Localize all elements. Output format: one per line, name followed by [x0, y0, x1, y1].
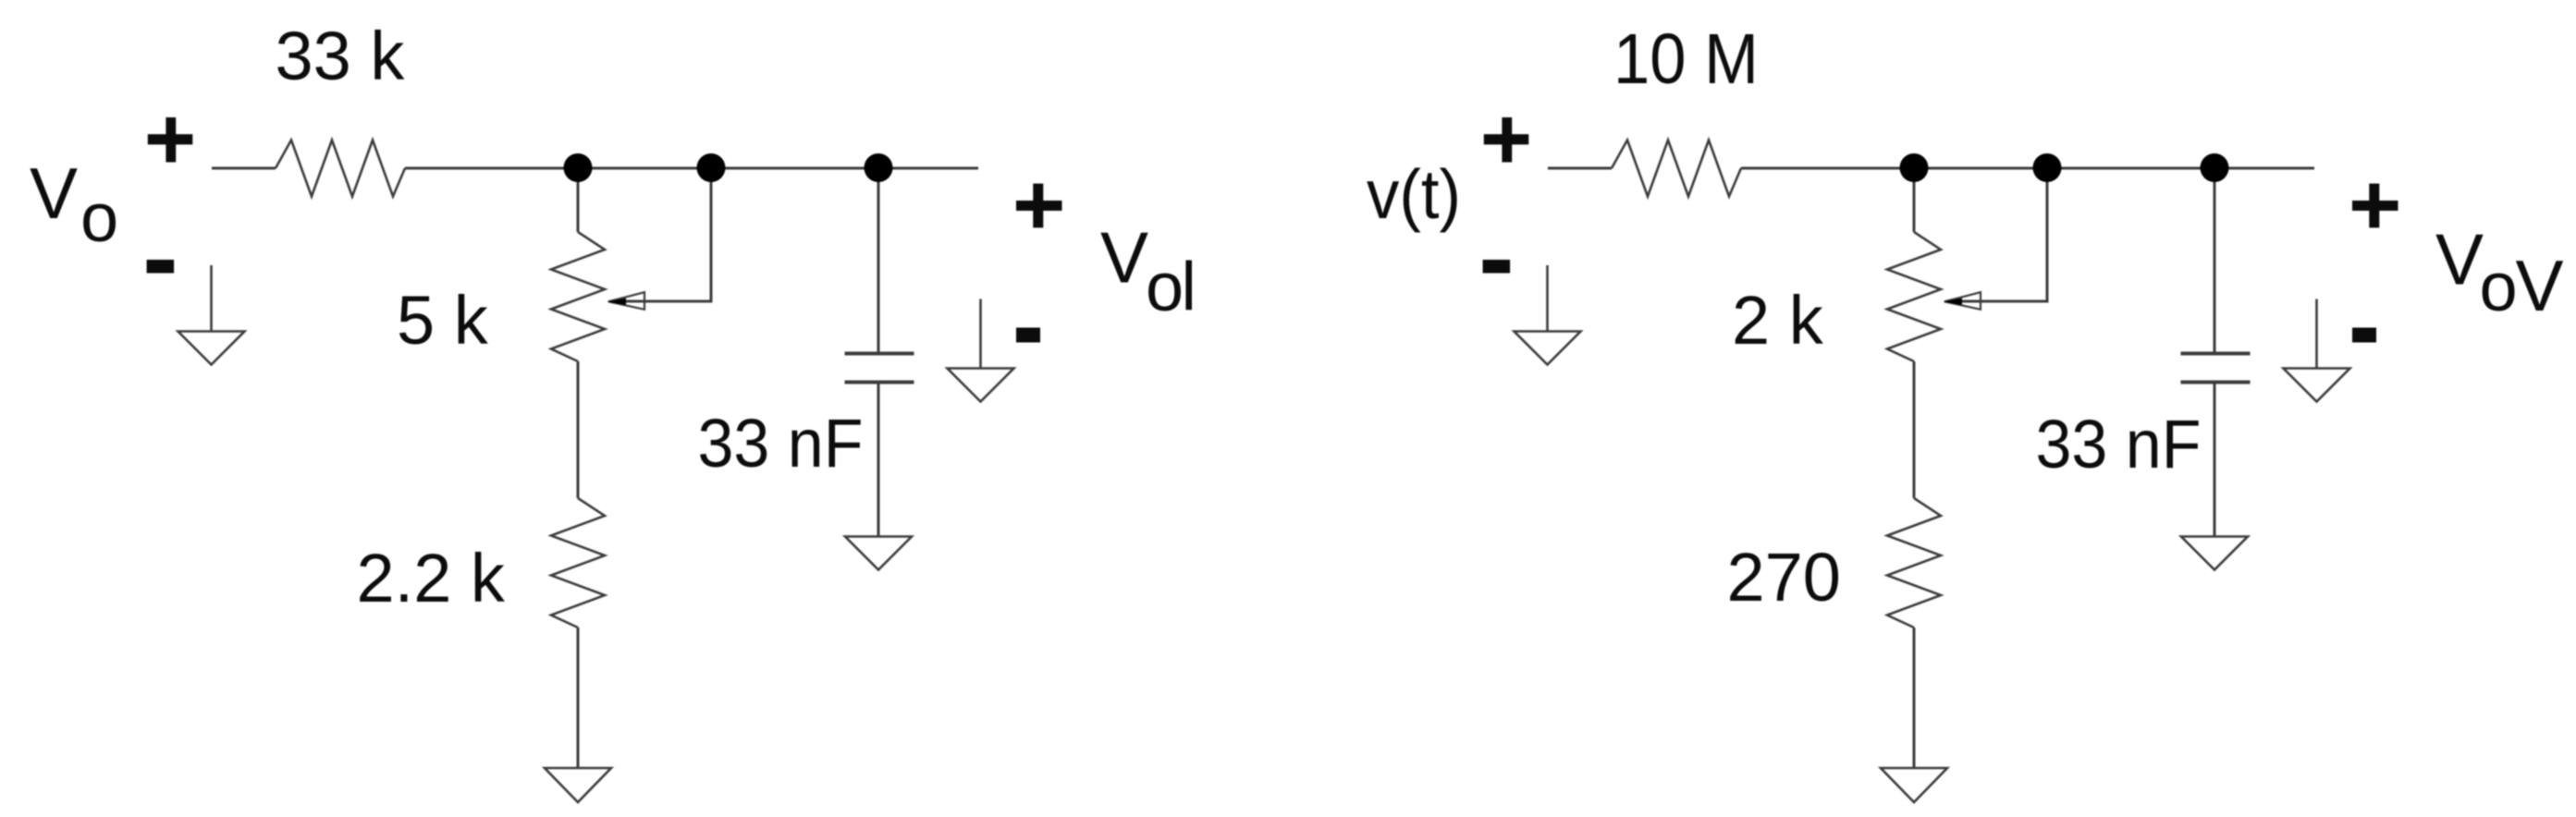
- ground under R3: [545, 768, 611, 802]
- node A junction dot: [564, 153, 593, 182]
- ground under C2: [2181, 537, 2248, 570]
- ground for output VoV: [2284, 299, 2350, 402]
- capacitor C2 33 nF plates: [2181, 354, 2251, 383]
- svg-text:10 M: 10 M: [1613, 19, 1759, 99]
- svg-text:33 nF: 33 nF: [2036, 406, 2202, 482]
- plus sign source vt: [1484, 134, 1529, 144]
- svg-text:V: V: [1100, 217, 1148, 299]
- wire R6 to ground: [1913, 628, 1916, 768]
- wire node B down to wiper: [610, 168, 711, 301]
- wire input lead right circuit: [1548, 167, 1612, 170]
- svg-text:V: V: [30, 152, 78, 234]
- wiper arrow tip fill: [607, 299, 627, 306]
- svg-text:2 k: 2 k: [1732, 282, 1824, 359]
- wire node C down to capacitor: [877, 168, 880, 352]
- plus sign source Vo: [148, 134, 193, 144]
- potentiometer R2 5 k vertical zigzag: [551, 232, 605, 361]
- node C junction dot: [865, 153, 893, 182]
- svg-text:v(t): v(t): [1367, 155, 1461, 233]
- svg-text:33 nF: 33 nF: [698, 405, 864, 482]
- wiper arrow head of R5: [1944, 292, 1981, 310]
- wire node D to potentiometer: [1913, 168, 1916, 232]
- minus sign output VoV: [2352, 328, 2376, 343]
- resistor R3 2.2 k vertical zigzag: [551, 498, 605, 628]
- resistor R4 10 M horizontal zigzag: [1612, 140, 1741, 197]
- resistor R1 33 k horizontal zigzag: [276, 140, 405, 197]
- node B junction dot: [697, 153, 726, 182]
- resistor R6 270 vertical zigzag: [1887, 498, 1941, 628]
- node F junction dot: [2201, 153, 2229, 182]
- wire node A to potentiometer: [577, 168, 580, 232]
- wiper arrow tip fill right: [1944, 299, 1963, 306]
- svg-text:V: V: [2516, 245, 2564, 326]
- capacitor C1 33 nF plates: [845, 354, 914, 383]
- minus sign source Vo: [147, 260, 175, 274]
- wire between R5 and R6: [1913, 361, 1916, 498]
- plus sign output Vol: [1016, 201, 1062, 211]
- wiper arrow head of R2: [608, 292, 644, 310]
- ground for source Vo: [178, 265, 245, 365]
- potentiometer R5 2 k vertical zigzag: [1887, 232, 1941, 361]
- plus sign output VoV: [2352, 201, 2398, 211]
- svg-text:V: V: [2435, 219, 2484, 300]
- minus sign source vt: [1483, 260, 1511, 274]
- svg-text:2.2 k: 2.2 k: [357, 540, 506, 616]
- wire R3 to ground: [577, 628, 580, 768]
- svg-text:270: 270: [1727, 539, 1841, 616]
- wire input lead left: [212, 167, 276, 170]
- wire top bus right circuit: [1741, 167, 2314, 170]
- ground for source vt: [1515, 265, 1581, 365]
- svg-text:o: o: [1146, 249, 1184, 325]
- ground for output Vol: [948, 299, 1014, 402]
- minus sign output Vol: [1016, 328, 1040, 343]
- node D junction dot: [1900, 153, 1929, 182]
- wire capacitor to ground: [877, 384, 880, 537]
- svg-text:33 k: 33 k: [276, 18, 406, 94]
- svg-text:o: o: [80, 179, 118, 256]
- svg-text:o: o: [2480, 249, 2518, 325]
- wire capacitor C2 to ground: [2214, 384, 2216, 537]
- wire node E down to wiper: [1946, 168, 2047, 301]
- wire between R2 and R3: [577, 361, 580, 498]
- node E junction dot: [2033, 153, 2062, 182]
- wire node F down to capacitor: [2214, 168, 2216, 352]
- svg-text:l: l: [1182, 249, 1196, 325]
- ground under R6: [1881, 768, 1947, 802]
- svg-text:5 k: 5 k: [397, 282, 489, 359]
- wire top bus: [405, 167, 978, 170]
- ground under C1: [845, 537, 912, 570]
